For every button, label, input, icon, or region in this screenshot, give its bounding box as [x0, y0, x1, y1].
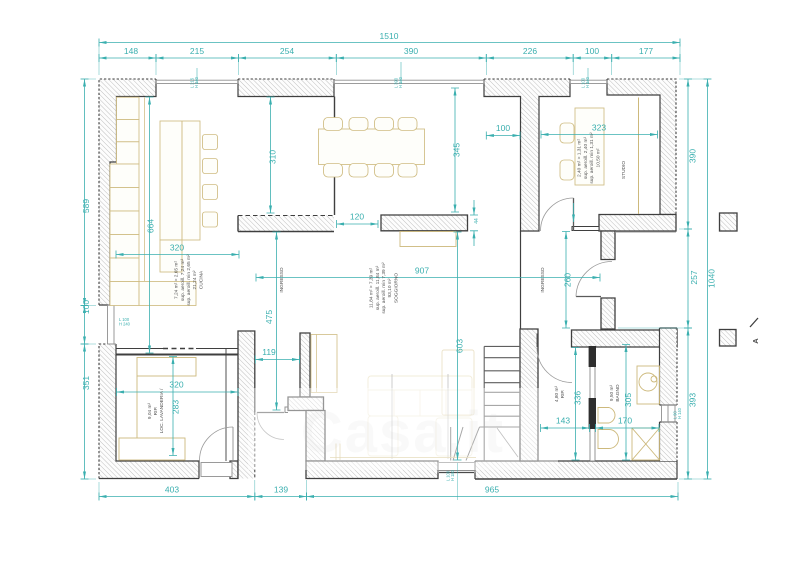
dim 345 living-upper	[451, 88, 462, 212]
wall bottom laundry-right piece	[230, 461, 238, 479]
svg-text:H 240: H 240	[398, 76, 403, 88]
wall outer top-left corner	[99, 79, 156, 305]
label LAVANDERIA block	[147, 388, 165, 433]
dim 148 top	[99, 46, 156, 62]
sideboard living	[400, 232, 456, 247]
wall kitchen/living divider line	[334, 97, 336, 216]
window bottom soggiorno	[438, 463, 475, 473]
wall stairs east	[520, 329, 538, 461]
svg-text:305: 305	[623, 393, 633, 407]
wall outer bottom-left	[99, 344, 199, 479]
dim 177 top	[612, 46, 680, 62]
sofa unit edges	[392, 374, 448, 459]
extension lines right	[618, 79, 711, 479]
dim 664 kitchen	[146, 97, 156, 353]
dim 254 top	[239, 46, 337, 62]
label INGRESSO corridor	[540, 267, 546, 293]
laundry counter bottom	[119, 438, 185, 460]
wall A block below kitchen	[238, 216, 334, 232]
dim 351 left	[81, 344, 92, 479]
svg-text:283: 283	[171, 400, 181, 414]
window tick studio	[587, 68, 589, 84]
window label studio	[581, 76, 591, 88]
studio wardrobe edge	[638, 98, 640, 215]
dim 323 studio	[541, 123, 658, 139]
dining chairs	[324, 118, 418, 178]
laundry counter left	[136, 376, 138, 438]
dim 283 laundry	[169, 357, 181, 456]
kitchen counter bottom L	[110, 282, 196, 306]
window tick kitchen	[196, 68, 198, 84]
svg-text:143: 143	[556, 416, 570, 426]
kitchen counter front edge	[144, 98, 146, 282]
window label kitchen	[190, 76, 200, 88]
dim 260 ingresso	[562, 232, 573, 329]
window label living	[394, 76, 404, 88]
legend hatched square 1	[720, 213, 738, 231]
wall ingresso east lower	[601, 298, 615, 329]
dim 403 bottom	[99, 485, 255, 501]
wall rip/bagno divider	[590, 347, 595, 461]
dim 965 bottom	[307, 485, 679, 501]
svg-text:664: 664	[146, 219, 156, 233]
wall studio bottom band	[599, 215, 676, 232]
svg-text:1510: 1510	[380, 31, 399, 41]
wall top segment 2	[238, 79, 334, 97]
svg-text:603: 603	[455, 339, 465, 353]
dim 139 bottom	[255, 485, 307, 501]
bagno wc	[598, 408, 615, 424]
svg-text:SOGGIORNO: SOGGIORNO	[393, 273, 399, 303]
studio chairs	[560, 123, 574, 143]
svg-text:93,10 m²: 93,10 m²	[387, 278, 393, 297]
svg-text:254: 254	[280, 46, 294, 56]
svg-text:1040: 1040	[707, 269, 717, 288]
svg-text:119: 119	[262, 347, 276, 357]
svg-text:170: 170	[618, 416, 632, 426]
studio desk	[575, 108, 604, 185]
svg-text:sup. aeroill. 7,24 m²: sup. aeroill. 7,24 m²	[180, 259, 186, 302]
wall soggiorno west lower	[306, 411, 325, 462]
door main entrance	[257, 412, 284, 414]
svg-text:257: 257	[689, 270, 699, 284]
svg-text:RIP.: RIP.	[560, 390, 566, 399]
dim 119 corridor	[255, 347, 299, 364]
door rip	[537, 348, 572, 383]
svg-text:H 240: H 240	[585, 76, 590, 88]
dim 320 laundry	[117, 380, 239, 397]
dim arrow studio sill	[573, 203, 575, 222]
dim 143 rip	[541, 416, 590, 433]
dim 100 top	[573, 46, 612, 62]
svg-text:390: 390	[688, 149, 698, 163]
label INGRESSO west	[279, 267, 285, 293]
svg-text:260: 260	[563, 273, 573, 287]
svg-text:345: 345	[452, 143, 462, 157]
legend hatched square 2	[720, 330, 737, 347]
bagno shower	[632, 428, 660, 460]
svg-text:sup. aeroill. 2,40 m²: sup. aeroill. 2,40 m²	[583, 137, 589, 180]
svg-text:320: 320	[170, 243, 184, 253]
dim 475 soggiorno	[264, 232, 281, 410]
stairs lower winder treads	[451, 427, 480, 461]
svg-text:215: 215	[190, 46, 204, 56]
line recess facade	[615, 231, 676, 233]
svg-text:310: 310	[268, 150, 278, 164]
svg-text:11,84 m² > 7,39 m²: 11,84 m² > 7,39 m²	[369, 267, 375, 308]
door ingresso side-entrance	[576, 296, 601, 298]
dim 336 rip	[572, 348, 583, 461]
dim 44 wall B	[470, 200, 480, 246]
window label bagno	[673, 407, 683, 419]
svg-text:177: 177	[639, 46, 653, 56]
dim 603 soggiorno	[454, 232, 465, 460]
laundry counter top	[137, 358, 196, 377]
svg-text:4,80 m²: 4,80 m²	[554, 385, 560, 402]
wall outer right upper-bagno	[660, 328, 678, 405]
dim 390 top	[336, 46, 486, 62]
svg-text:100: 100	[81, 300, 91, 314]
svg-text:sup. aeroill. min 2,65 m²: sup. aeroill. min 2,65 m²	[186, 254, 192, 306]
svg-text:INGRESSO: INGRESSO	[279, 267, 285, 293]
svg-text:336: 336	[573, 391, 583, 405]
dim 120 passage	[337, 212, 378, 229]
svg-text:393: 393	[688, 393, 698, 407]
watermark band	[248, 388, 558, 470]
dim 320 kitchen	[116, 243, 239, 259]
svg-text:226: 226	[523, 46, 537, 56]
svg-text:sup. aeroill. min 1,31 m²: sup. aeroill. min 1,31 m²	[589, 132, 595, 184]
svg-text:100: 100	[496, 123, 510, 133]
kitchen cabinets upper	[117, 97, 140, 164]
svg-text:9,04 m²: 9,04 m²	[147, 402, 153, 419]
window label left wall	[119, 317, 131, 327]
svg-text:sup. aeroill. min 7,39 m²: sup. aeroill. min 7,39 m²	[381, 262, 387, 314]
svg-text:403: 403	[165, 485, 179, 495]
window kitchen top	[156, 80, 238, 83]
svg-text:H 240: H 240	[119, 322, 131, 327]
wall outer top-right corner	[607, 79, 676, 215]
svg-text:320: 320	[169, 380, 183, 390]
window tick living	[400, 62, 402, 84]
wall bottom band east	[475, 461, 677, 479]
wall studio bottom sill	[572, 227, 599, 231]
svg-text:100: 100	[585, 46, 599, 56]
wall soggiorno west block	[288, 397, 324, 411]
svg-text:2,40 m² > 1,31 m²: 2,40 m² > 1,31 m²	[577, 139, 583, 177]
svg-text:Casa.it: Casa.it	[301, 400, 505, 465]
svg-text:H 180: H 180	[450, 469, 455, 481]
svg-text:H 140: H 140	[677, 407, 682, 419]
dim 1040 right outer	[704, 79, 717, 479]
wall ingresso east upper	[601, 231, 615, 260]
dim 907 soggiorno	[256, 266, 600, 282]
svg-text:H 240: H 240	[194, 76, 199, 88]
svg-text:10,50 m²: 10,50 m²	[595, 148, 601, 167]
door studio	[573, 198, 575, 231]
dim 100 left	[81, 300, 92, 344]
bagno basin counter	[637, 366, 660, 404]
wall bottom band west	[306, 461, 438, 479]
wall notch entrance	[285, 407, 288, 413]
kitchen island	[160, 121, 200, 240]
svg-text:475: 475	[264, 310, 274, 324]
cabinet left of stairs	[442, 350, 474, 415]
dim 393 right	[684, 328, 698, 479]
window bagno right wall	[662, 405, 678, 422]
extension lines top	[99, 44, 680, 75]
svg-text:STUDIO: STUDIO	[621, 161, 627, 179]
svg-text:INGRESSO: INGRESSO	[540, 267, 546, 293]
svg-text:sup. aeroill. 11,84 m²: sup. aeroill. 11,84 m²	[375, 265, 381, 310]
window living top	[334, 80, 484, 83]
label BAGNO	[609, 384, 621, 402]
window studio top	[570, 80, 607, 83]
svg-text:21,24 m²: 21,24 m²	[192, 270, 198, 289]
svg-text:120: 120	[350, 212, 364, 222]
svg-text:589: 589	[81, 199, 91, 213]
svg-text:LOC. LAVANDERIA /: LOC. LAVANDERIA /	[159, 388, 165, 433]
window label bottom	[446, 469, 456, 481]
kitchen chairs	[203, 135, 218, 228]
svg-text:44: 44	[474, 218, 480, 224]
svg-text:9,50 m²: 9,50 m²	[609, 384, 615, 401]
svg-text:BAGNO: BAGNO	[615, 384, 621, 402]
bagno bidet	[598, 430, 619, 449]
label RIP	[554, 385, 566, 402]
dim 215 top	[156, 46, 239, 62]
wall band above bagno	[572, 330, 678, 347]
wall dashed edge entrance recess	[254, 412, 256, 478]
dim 305 bagno	[622, 345, 633, 461]
svg-text:A: A	[751, 338, 760, 344]
sofa corner piece	[336, 444, 340, 461]
label CUCINA block	[174, 254, 205, 306]
svg-text:965: 965	[485, 485, 499, 495]
dim 1510 overall top	[99, 31, 680, 47]
stairs shaft left edge	[483, 346, 485, 461]
label STUDIO	[621, 161, 627, 179]
svg-text:323: 323	[592, 123, 606, 133]
stairs landing line	[480, 426, 521, 428]
label STUDIO block	[577, 132, 602, 184]
svg-text:148: 148	[124, 46, 138, 56]
svg-text:351: 351	[81, 376, 91, 390]
label SOGGIORNO block	[369, 262, 400, 314]
window left wall	[108, 305, 117, 344]
wall laundry north thin	[116, 348, 163, 350]
extension lines left	[81, 79, 96, 479]
wall T top bar and stem	[484, 79, 570, 231]
stairs upper flight treads	[484, 346, 520, 416]
dining table	[319, 129, 425, 165]
svg-text:RIP.: RIP.	[153, 407, 159, 416]
dim 310 living-upper	[267, 97, 278, 213]
svg-text:CUCINA: CUCINA	[198, 270, 204, 289]
wall B block	[381, 215, 468, 231]
bagno basin	[639, 373, 657, 391]
sofa group	[368, 376, 472, 456]
soggiorno wardrobe	[311, 335, 337, 393]
svg-text:390: 390	[404, 46, 418, 56]
stairs diagonal cut line	[497, 428, 518, 457]
wall laundry east	[238, 331, 255, 479]
dim 589 left	[81, 79, 92, 306]
svg-text:907: 907	[415, 266, 429, 276]
svg-text:7,24 m² > 2,65 m²: 7,24 m² > 2,65 m²	[174, 261, 180, 299]
dim 100 passage	[486, 123, 520, 140]
wall soggiorno/ingresso divider line	[520, 231, 522, 329]
dim 257 right	[684, 229, 699, 328]
svg-text:139: 139	[274, 485, 288, 495]
legend A section marker	[750, 318, 760, 344]
wall soggiorno west upper	[300, 333, 310, 397]
kitchen cabinets lower	[110, 164, 139, 282]
dim 226 top	[486, 46, 573, 62]
soggiorno skirting tan line	[330, 457, 476, 459]
dim 170 bagno	[596, 416, 660, 433]
dim 390 right	[684, 79, 698, 229]
wall outer right lower-bagno	[660, 422, 678, 461]
extension lines bottom	[99, 463, 678, 500]
door laundry	[201, 463, 232, 477]
